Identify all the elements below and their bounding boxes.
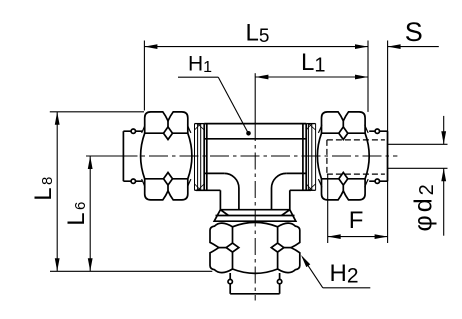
left nut H1 — [141, 112, 192, 200]
bottom nut H2 — [210, 222, 300, 273]
tee body hex — [196, 124, 311, 191]
vertical centerline / L1 left extension — [254, 73, 256, 300]
branch neck — [220, 173, 289, 209]
svg-text:H2: H2 — [330, 260, 359, 288]
label H1 — [178, 53, 251, 136]
left tube end circles — [131, 129, 135, 183]
dimension L1 — [255, 49, 368, 80]
left tube end — [123, 131, 142, 181]
label H2 — [301, 255, 370, 288]
dimension φd2 — [388, 116, 448, 236]
dimension S — [388, 17, 439, 243]
left sleeve — [195, 124, 205, 191]
right sleeve — [306, 124, 315, 191]
branch flange — [214, 210, 296, 222]
right nut — [317, 112, 369, 200]
dimension F — [328, 174, 388, 243]
dimension L6 — [63, 156, 120, 271]
right tube circles — [375, 129, 379, 183]
right tube end — [369, 131, 387, 181]
svg-text:S: S — [405, 17, 423, 47]
svg-text:F: F — [349, 207, 364, 234]
horizontal centerline — [88, 155, 397, 157]
dimension L5 — [144, 20, 368, 112]
right nut hidden bore — [327, 140, 385, 174]
bottom tube circles — [228, 279, 282, 283]
bottom tube end — [230, 273, 279, 294]
dimension L8 — [30, 112, 144, 271]
baseline extension — [50, 270, 212, 272]
